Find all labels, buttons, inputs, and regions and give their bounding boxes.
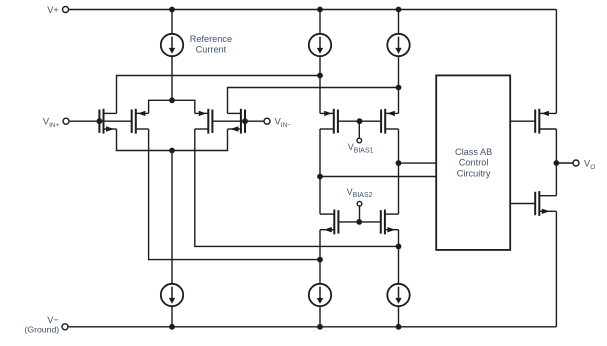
junction at M2 gate	[242, 118, 248, 124]
junction on V+ rail at second current source	[317, 7, 323, 13]
wire V+ rail to current source I3	[398, 10, 400, 34]
transistor M4 (PMOS input, inverting)	[195, 109, 213, 134]
junction node C	[317, 257, 323, 263]
wire M7 source down through node C to current source I5	[319, 230, 321, 284]
wire NMOS pair tail (M1/M2 sources)	[117, 129, 228, 151]
wire M8 source down through node D to current source I6	[398, 230, 400, 284]
junction node B on I3 branch	[396, 85, 402, 91]
current source I5 (bottom)	[309, 284, 331, 306]
wire current source I6 to V- rail	[398, 306, 400, 326]
wire reference current source to PMOS pair tail node	[171, 56, 173, 100]
svg-text:Control: Control	[459, 158, 489, 168]
junction V- rail at I5	[317, 324, 323, 330]
junction V- rail at I4	[169, 324, 175, 330]
junction VBIAS2	[356, 219, 362, 225]
terminal VO	[573, 160, 579, 166]
wire M4/M2 gates to VIN- terminal	[212, 120, 263, 122]
label V- (Ground)	[24, 315, 59, 335]
current source I4 (bottom, tail)	[161, 284, 183, 306]
wire M9 drain down to output node	[555, 129, 557, 163]
wire NMOS tail down to current source I4	[171, 151, 173, 284]
wire PMOS pair tail (M3/M4 sources)	[149, 100, 195, 113]
wire Class AB box to M10 gate	[510, 203, 535, 205]
transistor M5 (PMOS cascode, left)	[320, 109, 338, 134]
transistor M6 (PMOS cascode, right)	[381, 109, 398, 134]
transistor M8 (NMOS cascode, right)	[381, 210, 399, 235]
wire M2 drain up and across to folding node B	[228, 88, 399, 114]
junction node E (first stage output, left)	[317, 174, 323, 180]
junction node A on I2 branch	[317, 73, 323, 79]
terminal VBIAS2	[357, 201, 362, 206]
junction node D	[396, 244, 402, 250]
wire V+ rail to reference current source	[171, 10, 173, 34]
block U1 Class AB Control Circuitry	[436, 75, 510, 250]
wire VBIAS2 gate bus M7-M8	[338, 221, 380, 223]
wire M3 drain down and across to node C (M7 source)	[149, 129, 320, 260]
net V+ top supply rail	[69, 9, 557, 11]
transistor M2 (NMOS input, inverting)	[228, 109, 246, 134]
transistor M1 (NMOS input, non-inverting)	[99, 109, 116, 134]
junction node F (first stage output, right)	[396, 160, 402, 166]
svg-text:(Ground): (Ground)	[24, 325, 59, 335]
wire VIN+ to gates of M1 and M3	[69, 120, 132, 122]
svg-text:V−: V−	[47, 315, 59, 325]
terminal VBIAS1	[357, 138, 362, 143]
transistor M10 (NMOS output)	[535, 191, 556, 216]
transistor M9 (PMOS output)	[535, 109, 556, 134]
svg-text:Current: Current	[196, 45, 227, 55]
wire Class AB box to M9 gate	[510, 120, 535, 122]
junction on V+ rail at third current source	[396, 7, 402, 13]
junction at M1 gate	[97, 118, 103, 124]
junction PMOS tail node	[169, 97, 175, 103]
wire V+ rail to current source I2	[319, 10, 321, 34]
wire M10 drain up to output node	[555, 163, 557, 196]
terminal VIN-	[264, 118, 270, 124]
wire M10 source down to V- rail	[555, 212, 557, 327]
wire M6 drain down to summing node F	[398, 129, 400, 163]
terminal V-	[62, 324, 68, 330]
wire output node to VO terminal	[556, 162, 573, 164]
wire current source I2 down to cascode M5 source (through nodes at y=75.5 and y=87.5)	[319, 56, 321, 113]
terminal V+	[63, 7, 69, 13]
wire node E to Class AB box	[320, 176, 436, 178]
svg-text:Circuitry: Circuitry	[457, 168, 491, 178]
wire M1 drain up and across to folding node A	[117, 76, 321, 114]
label Reference Current	[190, 34, 232, 55]
wire current source I5 to V- rail	[319, 306, 321, 326]
current source I1 (reference current)	[161, 34, 183, 56]
wire node E down to M7 drain	[319, 177, 321, 215]
wire M5 drain down to summing node E	[319, 129, 321, 177]
wire node F down to M8 drain	[398, 163, 400, 214]
junction V- rail at I6	[396, 324, 402, 330]
junction NMOS tail node	[169, 148, 175, 154]
junction VBIAS1	[357, 118, 363, 124]
junction output node	[554, 160, 560, 166]
net V- bottom supply rail	[68, 326, 556, 328]
wire current source I4 to V- rail	[171, 306, 173, 326]
wire VBIAS1 gate bus M5-M6	[338, 120, 381, 122]
wire current source I3 down to cascode M6 source	[398, 56, 400, 113]
svg-text:Reference: Reference	[190, 34, 232, 44]
terminal VIN+	[63, 118, 69, 124]
wire VBIAS2 node to terminal	[359, 207, 361, 222]
transistor M3 (PMOS input, non-inverting)	[132, 109, 149, 134]
current source I3 (top)	[387, 34, 409, 56]
wire VBIAS1 node to terminal	[358, 121, 360, 137]
wire node F to Class AB box	[399, 162, 437, 164]
transistor M7 (NMOS cascode, left)	[320, 210, 338, 235]
current source I2 (top)	[309, 34, 331, 56]
wire V+ rail down to M9 source	[555, 10, 557, 114]
svg-text:V+: V+	[47, 5, 59, 15]
junction on V+ rail at reference current source	[169, 7, 175, 13]
wire M4 drain down and across to node D (M8 source)	[195, 129, 399, 246]
current source I6 (bottom)	[387, 284, 409, 306]
svg-text:Class AB: Class AB	[455, 147, 492, 157]
